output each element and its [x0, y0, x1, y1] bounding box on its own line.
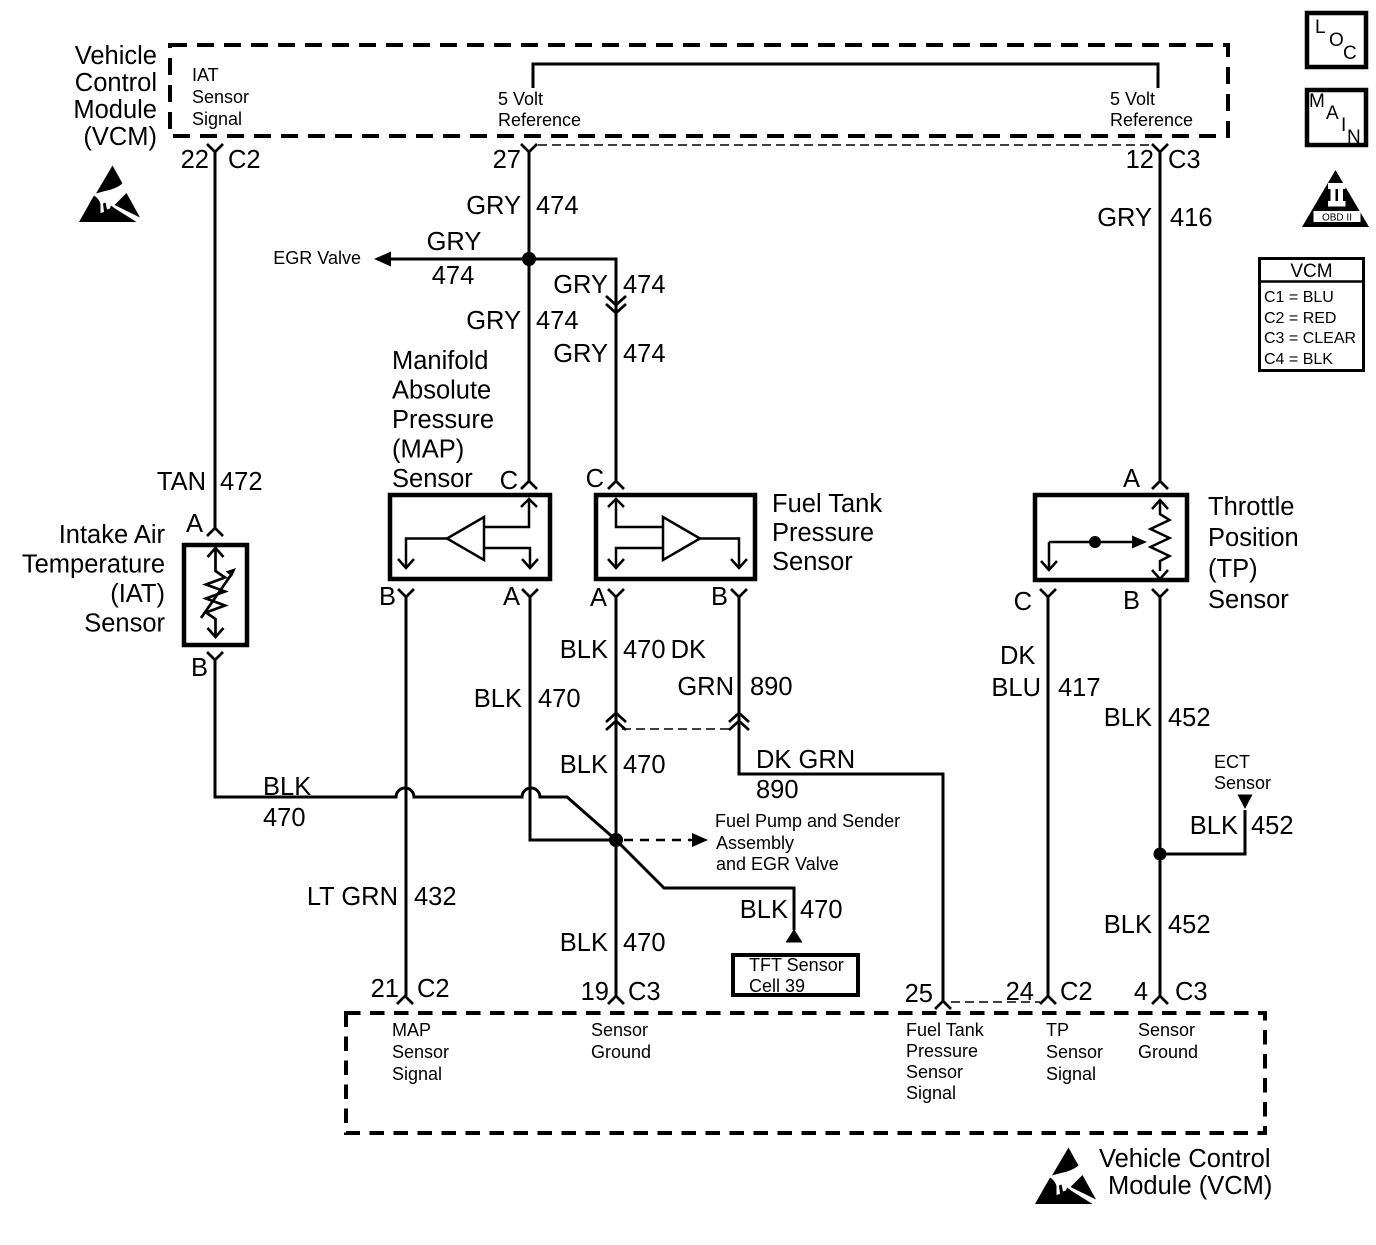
wire: TAN 472 from pin 22 to IAT sensor pin A	[214, 152, 217, 528]
svg-text:Position: Position	[1208, 524, 1299, 552]
svg-text:A: A	[1326, 103, 1339, 124]
svg-text:BLK: BLK	[560, 636, 608, 664]
wire: BLK 470 from MAP pin A to ground junction	[530, 597, 616, 840]
svg-text:Reference: Reference	[498, 110, 581, 130]
node: in-line connector chevrons on DK GRN 890	[729, 713, 749, 730]
svg-text:BLK: BLK	[1190, 812, 1238, 840]
svg-text:474: 474	[536, 307, 579, 335]
component: TFT Sensor Cell 39 reference box	[733, 955, 858, 995]
svg-text:GRY: GRY	[427, 228, 482, 256]
op-amp: Fuel Tank sensor internal amplifier (points right)	[608, 499, 747, 568]
node: pin 12 C3 connector fork	[1152, 144, 1168, 152]
label: Vehicle Control Module (VCM) bottom-right	[1099, 1145, 1272, 1200]
svg-text:TAN: TAN	[157, 468, 206, 496]
svg-text:Sensor: Sensor	[1138, 1020, 1195, 1040]
svg-text:C3: C3	[1175, 978, 1208, 1006]
Vehicle Control Module (VCM) top dashed box	[170, 45, 1228, 136]
svg-text:BLK: BLK	[1104, 911, 1152, 939]
svg-text:C3 = CLEAR: C3 = CLEAR	[1264, 330, 1356, 347]
svg-text:C3: C3	[628, 978, 661, 1006]
label: 5 Volt Reference (right)	[1110, 89, 1193, 130]
svg-text:5 Volt: 5 Volt	[1110, 89, 1155, 109]
svg-text:470: 470	[263, 804, 306, 832]
svg-text:EGR Valve: EGR Valve	[273, 248, 361, 268]
node: in-line connector chevrons on GRY 474	[606, 296, 626, 313]
svg-text:Module (VCM): Module (VCM)	[1108, 1172, 1272, 1200]
svg-text:GRY: GRY	[466, 192, 521, 220]
node: in-line connector chevrons on BLK 470	[606, 713, 626, 730]
svg-text:474: 474	[432, 262, 475, 290]
svg-text:417: 417	[1058, 674, 1101, 702]
svg-text:C1 = BLU: C1 = BLU	[1264, 289, 1334, 306]
svg-text:452: 452	[1251, 812, 1294, 840]
svg-text:Module: Module	[73, 96, 157, 124]
svg-text:Temperature: Temperature	[22, 551, 165, 579]
svg-text:A: A	[503, 583, 520, 611]
label: Fuel Tank Pressure Sensor Signal	[906, 1020, 985, 1103]
svg-text:Vehicle: Vehicle	[75, 42, 157, 70]
svg-text:24: 24	[1006, 978, 1034, 1006]
svg-text:(VCM): (VCM)	[83, 123, 157, 151]
wire: LT GRN 432 from MAP pin B to pin 21	[405, 597, 408, 996]
svg-text:Signal: Signal	[906, 1083, 956, 1103]
svg-text:O: O	[1329, 30, 1344, 51]
svg-text:C2 = RED: C2 = RED	[1264, 310, 1336, 327]
svg-text:5 Volt: 5 Volt	[498, 89, 543, 109]
svg-text:L: L	[1315, 17, 1326, 38]
svg-text:Sensor: Sensor	[1046, 1042, 1103, 1062]
node: pin 22 C2 connector fork	[207, 144, 223, 152]
svg-text:472: 472	[220, 468, 263, 496]
svg-text:BLK: BLK	[560, 929, 608, 957]
svg-text:(MAP): (MAP)	[392, 436, 464, 464]
node: sensor ground splice junction	[609, 833, 623, 847]
node: TP pin A chevron	[1152, 481, 1168, 489]
svg-text:474: 474	[536, 192, 579, 220]
svg-text:ECT: ECT	[1214, 752, 1250, 772]
node: Fuel Tank pin B fork	[731, 589, 747, 597]
svg-text:Sensor: Sensor	[392, 465, 473, 493]
svg-text:Pressure: Pressure	[906, 1041, 978, 1061]
resistor: TP potentiometer element	[1151, 500, 1170, 579]
node: BLK 452 splice junction	[1154, 848, 1167, 861]
svg-text:TP: TP	[1046, 1020, 1069, 1040]
svg-text:BLU: BLU	[991, 674, 1041, 702]
svg-text:DK GRN: DK GRN	[756, 746, 855, 774]
svg-text:IAT: IAT	[192, 65, 219, 85]
label: MAP Sensor Signal	[392, 1020, 449, 1084]
svg-text:LT GRN: LT GRN	[307, 883, 398, 911]
svg-text:GRY: GRY	[553, 340, 608, 368]
node: pin 4 C3 chevron	[1152, 996, 1168, 1004]
Vehicle Control Module (VCM) bottom dashed box	[346, 1013, 1265, 1133]
svg-text:VCM: VCM	[1290, 261, 1332, 282]
label: TP Sensor Signal	[1046, 1020, 1103, 1084]
resistor: IAT thermistor element	[201, 548, 231, 637]
svg-text:Signal: Signal	[392, 1064, 442, 1084]
svg-text:25: 25	[905, 980, 933, 1008]
svg-text:DK: DK	[671, 636, 706, 664]
svg-text:Absolute: Absolute	[392, 377, 491, 405]
svg-text:Fuel Tank: Fuel Tank	[772, 490, 882, 518]
wire: BLK 470 from Fuel Tank pin A down to pin 19	[615, 597, 618, 996]
svg-text:I: I	[1341, 115, 1346, 136]
svg-text:416: 416	[1170, 204, 1213, 232]
wire: BLK 470 from IAT pin B down then right with hops, diagonal to ground junction	[215, 660, 794, 930]
svg-text:BLK: BLK	[1104, 704, 1152, 732]
svg-text:C: C	[500, 467, 518, 495]
wire: dashed connector line between pin 25 and pin 24	[951, 1001, 1040, 1003]
svg-text:OBD II: OBD II	[1322, 213, 1352, 224]
svg-text:452: 452	[1168, 911, 1211, 939]
svg-text:Manifold: Manifold	[392, 347, 488, 375]
svg-text:M: M	[1309, 91, 1325, 112]
svg-text:MAP: MAP	[392, 1020, 431, 1040]
svg-text:C: C	[1014, 588, 1032, 616]
svg-text:GRY: GRY	[466, 307, 521, 335]
svg-text:GRY: GRY	[1097, 204, 1152, 232]
svg-text:GRY: GRY	[553, 271, 608, 299]
node: MAP pin A fork	[522, 589, 538, 597]
node: pin 27 connector fork	[521, 144, 537, 152]
svg-text:Signal: Signal	[192, 109, 242, 129]
node: pin 25 chevron	[935, 1001, 951, 1009]
svg-text:B: B	[379, 583, 396, 611]
node: MAP pin B fork	[398, 589, 414, 597]
label: Sensor Ground (pin 4)	[1138, 1020, 1198, 1062]
component: Fuel Tank Pressure Sensor box	[596, 495, 755, 579]
svg-text:B: B	[711, 583, 728, 611]
wire: GRY 474 branch right to Fuel Tank Pressure sensor pin C	[529, 259, 616, 481]
op-amp: MAP sensor internal amplifier (points left)	[398, 499, 538, 568]
svg-text:A: A	[590, 584, 607, 612]
svg-text:Signal: Signal	[1046, 1064, 1096, 1084]
node: pin 24 C2 chevron	[1040, 996, 1056, 1004]
svg-text:C: C	[1343, 43, 1357, 64]
wire: BLK 452 branch to ECT Sensor	[1160, 810, 1245, 854]
svg-text:Sensor: Sensor	[906, 1062, 963, 1082]
svg-text:BLK: BLK	[740, 896, 788, 924]
svg-text:Pressure: Pressure	[392, 406, 494, 434]
wire: DK BLU 417 from TP pin C to pin 24	[1047, 597, 1050, 996]
node: TP pin C fork	[1040, 589, 1056, 597]
wire: TP wiper arm with junction dot	[1049, 541, 1134, 544]
svg-text:470: 470	[800, 896, 843, 924]
svg-text:C2: C2	[1060, 978, 1093, 1006]
legend: MAIN box	[1307, 90, 1366, 145]
svg-text:A: A	[1123, 465, 1140, 493]
label: Manifold Absolute Pressure (MAP) Sensor	[392, 347, 494, 493]
svg-text:(TP): (TP)	[1208, 555, 1258, 583]
svg-text:890: 890	[756, 776, 799, 804]
label: 5 Volt Reference (left)	[498, 89, 581, 130]
svg-text:Cell 39: Cell 39	[749, 976, 805, 996]
svg-text:4: 4	[1134, 978, 1148, 1006]
label: ECT Sensor	[1214, 752, 1271, 793]
svg-text:22: 22	[181, 146, 209, 174]
node: pin 21 C2 chevron	[397, 996, 413, 1004]
svg-text:27: 27	[493, 146, 521, 174]
wire: BLK 452 from TP pin B down to pin 4	[1159, 597, 1162, 996]
wire: GRY 474 branch to EGR Valve (left arrow)	[386, 258, 529, 261]
node: TP pin B fork	[1152, 589, 1168, 597]
legend: LOC box	[1307, 13, 1366, 67]
wire: GRY 474 from pin 27 down to MAP pin C	[528, 152, 531, 481]
svg-text:B: B	[191, 654, 208, 682]
svg-text:DK: DK	[1000, 642, 1035, 670]
svg-text:BLK: BLK	[474, 685, 522, 713]
node: ECT sensor off-page arrow (down triangle)	[1238, 795, 1253, 810]
svg-text:Intake Air: Intake Air	[59, 521, 166, 549]
wire: dashed connector link between BLK 470 and DK GRN 890 chevrons	[622, 728, 731, 730]
svg-text:BLK: BLK	[263, 773, 311, 801]
component: Throttle Position (TP) Sensor box	[1035, 495, 1187, 580]
svg-text:C3: C3	[1168, 146, 1201, 174]
node: MAP pin C chevron	[521, 481, 537, 489]
wire: GRY 416 from pin 12 to TP pin A	[1159, 152, 1162, 481]
svg-text:Assembly: Assembly	[716, 833, 794, 853]
svg-text:(IAT): (IAT)	[110, 580, 165, 608]
svg-text:474: 474	[623, 271, 666, 299]
svg-text:12: 12	[1126, 146, 1154, 174]
svg-text:19: 19	[581, 978, 609, 1006]
svg-text:Sensor: Sensor	[84, 610, 165, 638]
svg-text:452: 452	[1168, 704, 1211, 732]
ESD sensitive device symbol top-left	[79, 166, 140, 223]
ESD sensitive device symbol bottom-right	[1035, 1148, 1096, 1205]
svg-text:C: C	[586, 465, 604, 493]
legend: OBD II triangle symbol	[1302, 170, 1369, 227]
svg-text:Ground: Ground	[1138, 1042, 1198, 1062]
svg-text:474: 474	[623, 340, 666, 368]
node: pin 19 C3 chevron	[608, 996, 624, 1004]
svg-text:Sensor: Sensor	[1208, 586, 1289, 614]
svg-text:Throttle: Throttle	[1208, 493, 1294, 521]
label: Fuel Tank Pressure Sensor	[772, 490, 882, 576]
svg-text:Sensor: Sensor	[392, 1042, 449, 1062]
svg-text:470: 470	[623, 929, 666, 957]
svg-text:N: N	[1347, 127, 1361, 148]
svg-text:A: A	[186, 510, 203, 538]
node: TFT sensor off-page arrow (up triangle)	[786, 929, 803, 943]
svg-text:Pressure: Pressure	[772, 519, 874, 547]
wire: DK GRN 890 from Fuel Tank pin B to pin 25	[739, 597, 943, 1001]
svg-text:Reference: Reference	[1110, 110, 1193, 130]
node: GRY 474 splice junction	[522, 252, 536, 266]
wire: dashed connector line between pin 27 and pin 12	[538, 144, 1151, 146]
wire: dashed arrow to Fuel Pump and Sender Assembly	[624, 839, 693, 842]
node: Fuel Tank pin A fork	[608, 589, 624, 597]
label: Intake Air Temperature (IAT) Sensor	[22, 521, 166, 638]
svg-text:Ground: Ground	[591, 1042, 651, 1062]
svg-text:21: 21	[371, 975, 399, 1003]
node: IAT pin A chevron	[207, 528, 223, 536]
svg-text:Vehicle Control: Vehicle Control	[1099, 1145, 1271, 1173]
svg-text:C2: C2	[228, 146, 261, 174]
svg-text:and EGR Valve: and EGR Valve	[716, 854, 839, 874]
wire: 5 volt reference bus inside VCM box	[533, 64, 1158, 88]
component: MAP sensor box	[390, 495, 550, 579]
svg-text:B: B	[1123, 587, 1140, 615]
svg-text:890: 890	[750, 673, 793, 701]
svg-text:470: 470	[538, 685, 581, 713]
node: Fuel Tank pin C chevron	[608, 481, 624, 489]
svg-text:Fuel Pump and Sender: Fuel Pump and Sender	[715, 811, 900, 831]
label: Vehicle Control Module (VCM) top-left	[73, 42, 157, 151]
svg-text:470: 470	[623, 636, 666, 664]
svg-text:432: 432	[414, 883, 457, 911]
label: IAT Sensor Signal (inside VCM box)	[192, 65, 249, 129]
svg-text:470: 470	[623, 751, 666, 779]
svg-text:Sensor: Sensor	[192, 87, 249, 107]
svg-text:TFT Sensor: TFT Sensor	[749, 955, 844, 975]
component: Intake Air Temperature (IAT) Sensor box	[184, 545, 247, 645]
svg-text:Sensor: Sensor	[772, 548, 853, 576]
label: Throttle Position (TP) Sensor	[1208, 493, 1299, 614]
legend: VCM connector color table	[1258, 259, 1365, 371]
svg-text:BLK: BLK	[560, 751, 608, 779]
svg-text:C4 = BLK: C4 = BLK	[1264, 351, 1333, 368]
label: Fuel Pump and Sender Assembly and EGR Valve	[715, 811, 900, 874]
svg-text:Fuel Tank: Fuel Tank	[906, 1020, 985, 1040]
svg-text:C2: C2	[417, 975, 450, 1003]
svg-text:Control: Control	[75, 69, 157, 97]
svg-text:Sensor: Sensor	[591, 1020, 648, 1040]
svg-text:Sensor: Sensor	[1214, 773, 1271, 793]
label: Sensor Ground (pin 19)	[591, 1020, 651, 1062]
svg-text:GRN: GRN	[677, 673, 734, 701]
node: IAT pin B fork	[207, 652, 223, 660]
